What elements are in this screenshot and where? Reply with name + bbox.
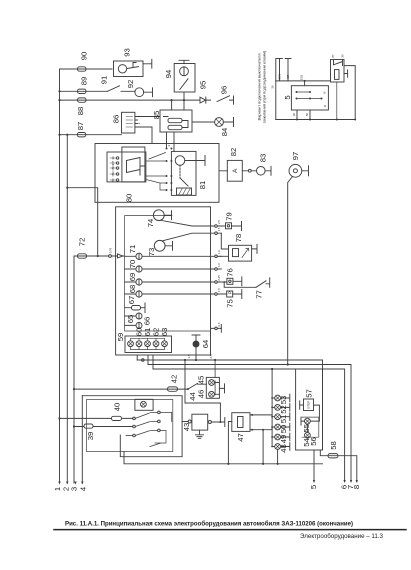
fuse 67 xyxy=(132,306,141,311)
80 pins xyxy=(110,157,119,181)
bus2 y364.5 xyxy=(148,365,351,482)
svg-text:INT: INT xyxy=(111,160,115,165)
wire 86 to block 80 xyxy=(137,127,152,144)
instrument cluster outer box xyxy=(116,207,211,355)
wire w1 top feed xyxy=(60,68,113,70)
svg-text:1,0: 1,0 xyxy=(217,263,221,267)
svg-text:74: 74 xyxy=(146,218,155,227)
lamp 68 xyxy=(136,291,142,297)
svg-text:75: 75 xyxy=(225,299,234,308)
svg-text:STOP: STOP xyxy=(306,401,310,409)
svg-text:5: 5 xyxy=(283,95,292,99)
lamp 64 xyxy=(192,335,200,341)
lamp column feed xyxy=(271,369,273,447)
svg-text:76: 76 xyxy=(225,268,234,277)
svg-text:85: 85 xyxy=(152,111,161,120)
fuse 58 xyxy=(328,454,338,458)
lamp sub-box in block xyxy=(135,399,153,410)
svg-text:52: 52 xyxy=(279,405,288,414)
svg-text:39: 39 xyxy=(86,432,95,441)
lamp 49 xyxy=(275,434,281,440)
block internal contacts row3 xyxy=(126,435,133,437)
connector 86 xyxy=(122,112,138,133)
wire w3 xyxy=(60,99,201,101)
svg-text:69: 69 xyxy=(128,273,137,282)
svg-text:1,5: 1,5 xyxy=(217,288,221,292)
fuse 90 xyxy=(78,67,87,71)
connector arrow on 72 wire xyxy=(118,254,123,258)
svg-text:30/1: 30/1 xyxy=(278,74,282,80)
bus junction dots xyxy=(184,359,289,370)
lamp 60 xyxy=(136,341,142,347)
left bus 3 xyxy=(73,256,75,483)
svg-text:1,5: 1,5 xyxy=(187,354,191,358)
bus1 y360 xyxy=(137,360,322,450)
wire at y=187.7 xyxy=(67,188,97,256)
svg-text:93: 93 xyxy=(122,48,131,57)
lamp rail wires xyxy=(131,338,165,341)
ammeter 82 xyxy=(227,160,242,181)
inset variant box: left rail xyxy=(275,59,277,120)
svg-text:59: 59 xyxy=(116,333,125,342)
relay 93 xyxy=(114,59,152,76)
fuse block inner xyxy=(87,400,173,452)
svg-text:30: 30 xyxy=(341,54,345,58)
footer rule xyxy=(54,529,406,531)
fuse 40 feed wire from bus1 xyxy=(60,417,133,419)
relay 78 xyxy=(229,245,252,261)
svg-text:58: 58 xyxy=(329,441,338,450)
fuse 42 xyxy=(168,387,178,391)
cluster bottom pins to buses xyxy=(137,355,153,369)
svg-text:68: 68 xyxy=(128,285,137,294)
svg-text:50: 50 xyxy=(279,425,288,434)
lamp 84 xyxy=(192,121,215,123)
block internal contacts row1 xyxy=(133,417,136,420)
svg-text:86: 86 xyxy=(111,115,120,124)
svg-text:81: 81 xyxy=(198,181,207,190)
switch 77 xyxy=(256,278,270,288)
lamp box 59-63 xyxy=(125,336,172,353)
lamp 50 xyxy=(275,424,281,430)
svg-text:88: 88 xyxy=(76,107,85,116)
svg-text:A: A xyxy=(232,168,239,173)
svg-text:97: 97 xyxy=(291,152,300,161)
fuse 40 xyxy=(112,416,122,420)
svg-text:0,6: 0,6 xyxy=(217,322,221,326)
fuse 89 xyxy=(78,89,87,93)
svg-text:73: 73 xyxy=(147,248,156,257)
lamp 52 xyxy=(275,405,281,411)
svg-text:67: 67 xyxy=(127,296,136,305)
svg-text:80: 80 xyxy=(124,194,133,203)
connector terminal before 83 xyxy=(248,169,251,172)
svg-text:47: 47 xyxy=(236,433,245,442)
lamp 45 xyxy=(209,380,215,386)
svg-text:94: 94 xyxy=(164,69,173,78)
svg-text:83: 83 xyxy=(258,154,267,163)
fuse 39 xyxy=(84,424,93,428)
diode 95 xyxy=(200,97,211,103)
svg-text:1: 1 xyxy=(137,115,141,117)
relay 85 xyxy=(160,100,192,151)
inset bottom bus xyxy=(276,119,355,121)
lamp 59 xyxy=(128,341,134,347)
svg-text:INT: INT xyxy=(286,74,290,79)
fuse 88 xyxy=(78,98,87,102)
svg-text:91: 91 xyxy=(99,76,108,85)
gauge 74 xyxy=(153,210,164,221)
switch 44 xyxy=(188,383,206,389)
lamp 66 xyxy=(136,322,142,328)
svg-text:К: К xyxy=(167,144,171,146)
svg-text:78: 78 xyxy=(234,234,243,243)
lamp 65 xyxy=(136,313,142,319)
harness 56 bracket xyxy=(302,417,319,437)
svg-text:43: 43 xyxy=(182,423,191,432)
lamp box 45-46 xyxy=(206,377,219,398)
svg-text:30: 30 xyxy=(271,85,275,89)
svg-text:55: 55 xyxy=(302,424,311,433)
svg-text:64: 64 xyxy=(201,339,210,348)
svg-text:45: 45 xyxy=(196,376,205,385)
switch 94 xyxy=(174,60,195,110)
ground 43 xyxy=(196,430,204,438)
svg-text:2: 2 xyxy=(137,122,141,124)
svg-text:30: 30 xyxy=(292,113,296,117)
svg-text:90: 90 xyxy=(79,52,88,61)
lamp 55 xyxy=(305,418,311,424)
commutator 43 xyxy=(192,414,208,430)
left bus 2 xyxy=(66,135,68,483)
lamp 71 xyxy=(136,253,142,259)
inset 5 bottom pins xyxy=(297,110,310,120)
svg-text:84: 84 xyxy=(220,127,229,136)
svg-text:15/2: 15/2 xyxy=(111,171,115,177)
svg-text:49: 49 xyxy=(279,435,288,444)
switch 96 xyxy=(217,96,234,104)
connector terminal on 72 wire xyxy=(109,255,112,258)
svg-text:53: 53 xyxy=(279,396,288,405)
svg-text:72: 72 xyxy=(77,238,86,247)
80 inner switch box xyxy=(122,147,145,182)
lamp 69 xyxy=(136,279,142,285)
node A main left bus 1 xyxy=(59,69,61,483)
svg-text:87: 87 xyxy=(331,54,335,58)
svg-text:48: 48 xyxy=(279,444,288,453)
svg-text:65: 65 xyxy=(126,315,135,324)
lamp 53 xyxy=(275,395,281,401)
lamp 51 xyxy=(275,414,281,420)
stop switch 57 xyxy=(304,399,314,411)
svg-text:66: 66 xyxy=(142,317,151,326)
svg-text:57: 57 xyxy=(304,389,313,398)
connector terminal on bus1 xyxy=(142,359,145,362)
svg-text:63: 63 xyxy=(160,328,169,337)
bottom long bus xyxy=(124,452,323,464)
indicator 79 xyxy=(226,223,232,229)
svg-text:89: 89 xyxy=(79,77,88,86)
svg-text:2,25: 2,25 xyxy=(217,275,221,281)
svg-text:96: 96 xyxy=(219,86,228,95)
svg-text:71: 71 xyxy=(128,245,137,254)
inset top terminals xyxy=(276,59,291,81)
svg-text:Рис. 11.А.1. Принципиальная сх: Рис. 11.А.1. Принципиальная схема электр… xyxy=(65,521,353,528)
svg-text:56: 56 xyxy=(309,437,318,446)
wire to switch 77 xyxy=(224,282,256,287)
wire row328 termination xyxy=(220,325,222,333)
feed wire to 43 xyxy=(185,360,220,422)
svg-text:5: 5 xyxy=(309,485,318,489)
lamp 63 xyxy=(162,341,168,347)
lamp 48 xyxy=(275,444,281,450)
instrument cluster inner box xyxy=(125,216,211,331)
81 output to terminal xyxy=(185,156,205,166)
wire fuse42 feed xyxy=(74,388,188,390)
svg-text:3: 3 xyxy=(69,487,78,491)
svg-text:1,5: 1,5 xyxy=(217,227,221,231)
svg-text:42: 42 xyxy=(169,375,178,384)
gauge 73 xyxy=(154,240,165,251)
node junctions left bus xyxy=(58,90,185,390)
lamp 46 xyxy=(209,391,215,397)
svg-text:8: 8 xyxy=(352,485,361,489)
svg-text:50: 50 xyxy=(305,113,309,117)
wire 97 down xyxy=(288,177,293,365)
horn 97 xyxy=(289,164,302,177)
sensor 75 xyxy=(227,291,233,297)
svg-text:87: 87 xyxy=(76,122,85,131)
svg-text:82: 82 xyxy=(229,148,238,157)
fuse 87 xyxy=(77,133,86,137)
wire 58 run xyxy=(320,450,357,482)
svg-text:50: 50 xyxy=(111,178,115,182)
svg-text:В: В xyxy=(323,91,327,93)
wire w2 xyxy=(60,90,108,92)
svg-text:зажигания (при подсоединении к: зажигания (при подсоединении клемм) xyxy=(262,50,267,123)
svg-text:О: О xyxy=(323,104,327,107)
wire 86 to 85 xyxy=(137,116,160,118)
svg-text:95: 95 xyxy=(198,81,207,90)
svg-text:P: P xyxy=(227,291,232,294)
terminal arrowheads xyxy=(58,480,358,485)
indicator 76 xyxy=(227,278,233,284)
lamp terminals xyxy=(281,394,290,450)
svg-text:15/2: 15/2 xyxy=(300,74,304,80)
80 inner connector box xyxy=(107,152,146,182)
terminal 4 wire xyxy=(81,396,83,483)
wire 72 feed xyxy=(74,255,125,257)
svg-text:1,0: 1,0 xyxy=(217,250,221,254)
svg-text:70: 70 xyxy=(128,260,137,269)
80 right contacts xyxy=(166,148,173,192)
lamp 61 xyxy=(145,341,151,347)
lamp 54 xyxy=(305,432,311,438)
svg-text:79: 79 xyxy=(224,212,233,221)
svg-text:0,75: 0,75 xyxy=(109,247,113,253)
rear lamps box 54-57 xyxy=(296,369,323,450)
inset relay xyxy=(331,60,345,83)
lamp 70 xyxy=(136,266,142,272)
bus3 y369 xyxy=(153,369,345,482)
relay 47 xyxy=(232,413,250,432)
80 internal wires xyxy=(146,153,166,191)
inset ignition switch 5 xyxy=(291,86,328,110)
fuse 72 xyxy=(78,254,87,258)
80 key switch symbol xyxy=(127,158,145,176)
block internal contacts row2 xyxy=(133,425,136,428)
terminal 5 wire xyxy=(313,450,315,482)
cluster right terminals xyxy=(211,225,222,330)
svg-text:77: 77 xyxy=(254,290,263,299)
inset wire to switch 5 xyxy=(288,81,331,86)
fuse 39 feed wire from bus3 xyxy=(74,426,133,428)
svg-text:30: 30 xyxy=(111,156,115,160)
ignition switch block 80 outer box xyxy=(95,144,219,203)
svg-text:4: 4 xyxy=(78,486,87,491)
switch 91 xyxy=(108,86,135,92)
svg-text:92: 92 xyxy=(126,80,135,89)
svg-text:51: 51 xyxy=(279,415,288,424)
lamp 62 xyxy=(153,341,159,347)
fuse block 40/39 outer xyxy=(82,396,182,457)
svg-text:2,5: 2,5 xyxy=(217,220,221,224)
wire to fuse 87 xyxy=(60,134,122,136)
svg-text:40: 40 xyxy=(112,403,121,412)
ignition distributor 81 xyxy=(171,151,196,195)
horn 92 xyxy=(135,88,144,97)
svg-text:Электрооборудование – 11.3: Электрооборудование – 11.3 xyxy=(300,533,384,540)
svg-text:15/1: 15/1 xyxy=(111,165,115,171)
svg-text:2,5: 2,5 xyxy=(209,354,213,358)
svg-text:46: 46 xyxy=(196,390,205,399)
